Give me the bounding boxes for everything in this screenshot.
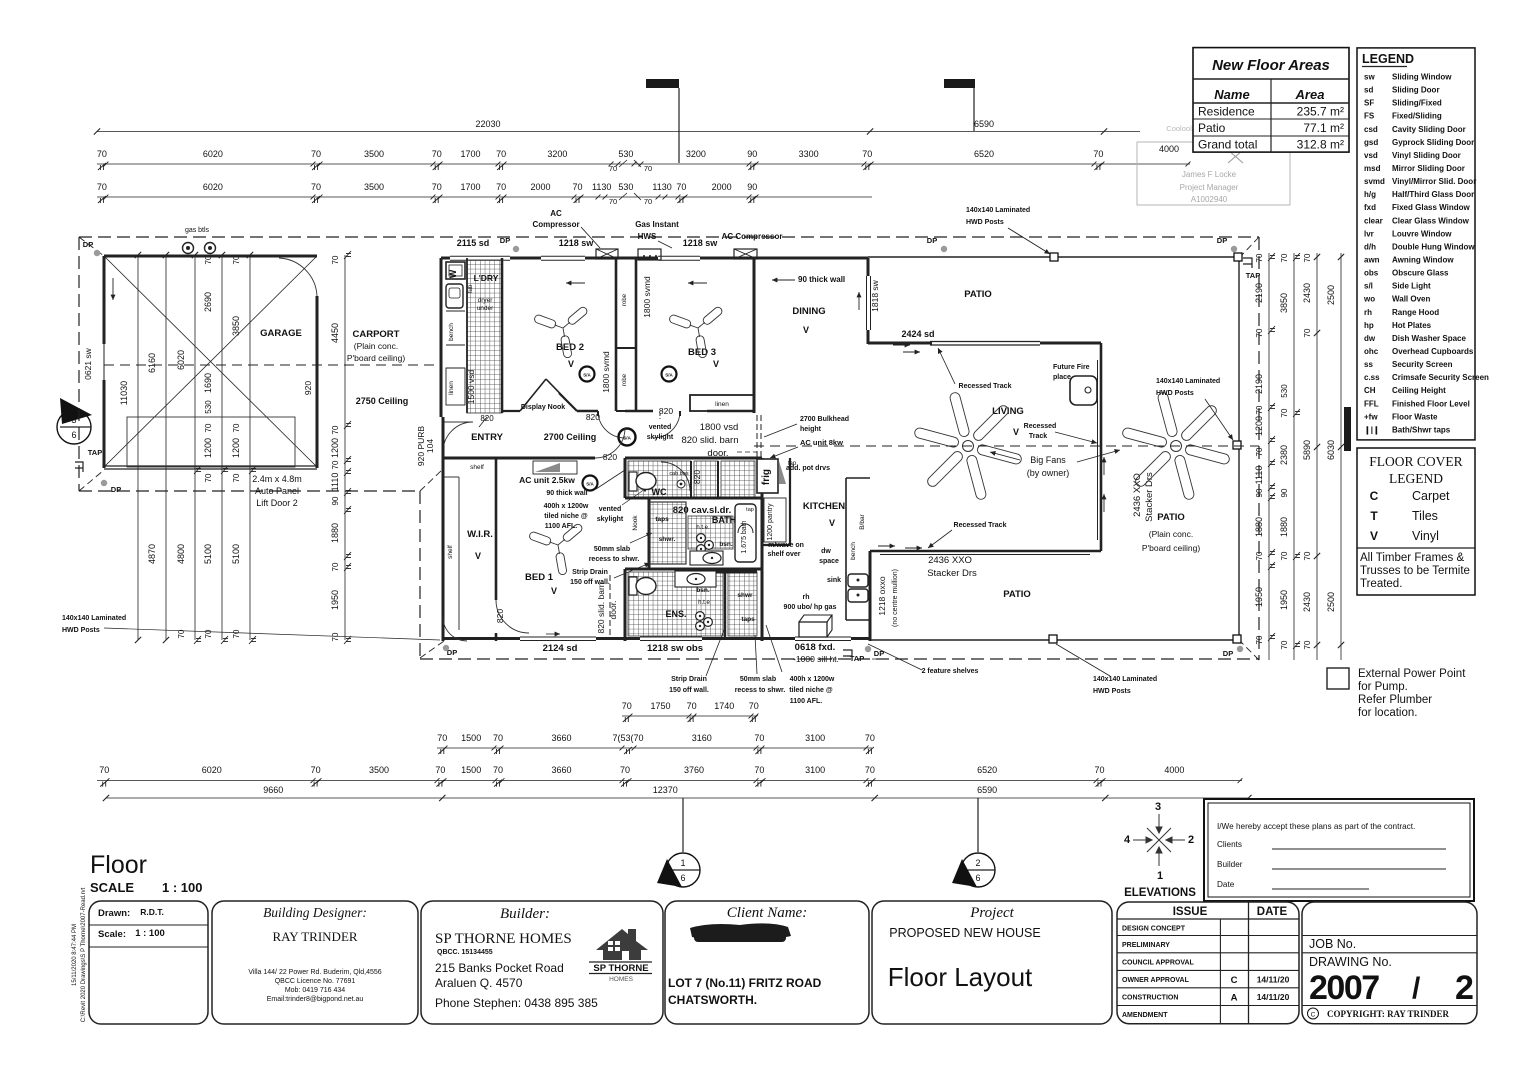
svg-text:Date: Date <box>1217 880 1235 889</box>
svg-text:(by owner): (by owner) <box>1027 468 1070 478</box>
svg-text:1218 sw: 1218 sw <box>683 238 719 248</box>
svg-text:50mm slab: 50mm slab <box>594 546 630 553</box>
svg-text:Carpet: Carpet <box>1412 489 1450 503</box>
svg-text:2007: 2007 <box>1309 969 1379 1007</box>
svg-text:6030: 6030 <box>1326 440 1336 460</box>
svg-text:3660: 3660 <box>551 733 571 743</box>
svg-text:3660: 3660 <box>551 765 571 775</box>
svg-text:150 off wall.: 150 off wall. <box>669 687 709 694</box>
svg-text:1200: 1200 <box>231 438 241 458</box>
corridor S/A <box>619 429 636 446</box>
svg-text:Hot Plates: Hot Plates <box>1392 321 1432 330</box>
svg-text:HWD Posts: HWD Posts <box>1093 688 1131 695</box>
svg-text:Vinyl: Vinyl <box>1412 529 1439 543</box>
washing machine W box <box>446 262 465 279</box>
WC hatch <box>628 461 691 498</box>
svg-text:LOT 7 (No.11) FRITZ ROAD: LOT 7 (No.11) FRITZ ROAD <box>668 976 822 990</box>
carport centre dashed line <box>104 364 441 366</box>
WIR right wall <box>495 458 498 600</box>
svg-text:Crimsafe Security Screen: Crimsafe Security Screen <box>1392 373 1489 382</box>
svg-text:4870: 4870 <box>147 544 157 564</box>
svg-text:Future Fire: Future Fire <box>1053 364 1090 371</box>
svg-text:OWNER APPROVAL: OWNER APPROVAL <box>1122 977 1190 984</box>
svg-text:sd: sd <box>1364 86 1373 95</box>
svg-text:1880: 1880 <box>330 523 340 543</box>
svg-text:Scale:: Scale: <box>98 929 126 940</box>
svg-text:70: 70 <box>493 765 503 775</box>
svg-text:70: 70 <box>609 164 617 173</box>
svg-text:Strip Drain: Strip Drain <box>572 569 608 576</box>
hip corner dashes <box>79 470 104 491</box>
svg-text:Email:trinder8@bigpond.net.au: Email:trinder8@bigpond.net.au <box>267 996 364 1003</box>
svg-text:dryer: dryer <box>478 297 494 304</box>
svg-text:70: 70 <box>311 765 321 775</box>
svg-text:90 thick wall: 90 thick wall <box>798 275 845 284</box>
svg-text:JOB No.: JOB No. <box>1309 937 1356 951</box>
project box <box>872 901 1112 1024</box>
svg-text:2700 Ceiling: 2700 Ceiling <box>544 432 597 442</box>
svg-text:70: 70 <box>865 765 875 775</box>
svg-text:530: 530 <box>618 182 633 192</box>
svg-text:lvr: lvr <box>1364 229 1374 238</box>
dimension row D (bath block) <box>622 715 757 717</box>
svg-text:Fixed Glass Window: Fixed Glass Window <box>1392 203 1470 212</box>
svg-text:6590: 6590 <box>977 785 997 795</box>
svg-text:Ceiling Height: Ceiling Height <box>1392 386 1446 395</box>
svg-text:1 : 100: 1 : 100 <box>135 928 165 939</box>
svg-text:taps: taps <box>741 616 755 623</box>
svg-text:12370: 12370 <box>653 785 678 795</box>
svg-text:C: C <box>1370 489 1379 503</box>
svg-text:shwr: shwr <box>737 592 753 599</box>
svg-text:Project Manager: Project Manager <box>1180 183 1239 192</box>
svg-text:dw: dw <box>821 548 831 555</box>
svg-text:QBCC. 15134455: QBCC. 15134455 <box>437 949 493 956</box>
svg-text:6020: 6020 <box>176 350 186 370</box>
svg-text:Builder: Builder <box>1217 860 1243 869</box>
svg-text:820: 820 <box>659 406 673 416</box>
svg-text:ENS.: ENS. <box>665 609 686 619</box>
svg-text:0621 sw: 0621 sw <box>83 347 93 380</box>
svg-text:tub: tub <box>468 284 474 293</box>
svg-text:140x140 Laminated: 140x140 Laminated <box>1093 676 1157 683</box>
svg-text:/: / <box>1412 972 1421 1005</box>
bulkhead dashed <box>756 415 758 457</box>
svg-text:70: 70 <box>1093 149 1103 159</box>
svg-text:1: 1 <box>1157 870 1163 882</box>
svg-text:1218 sw: 1218 sw <box>559 238 595 248</box>
svg-text:under: under <box>477 305 494 312</box>
svg-text:Clear Glass Window: Clear Glass Window <box>1392 216 1470 225</box>
svg-text:DP: DP <box>83 240 93 249</box>
svg-text:AC: AC <box>550 209 562 218</box>
svg-text:PATIO: PATIO <box>1157 512 1185 523</box>
svg-text:DP: DP <box>500 236 510 245</box>
svg-text:New Floor Areas: New Floor Areas <box>1212 57 1330 74</box>
centre dashed line <box>754 445 1259 447</box>
svg-text:1200 pantry: 1200 pantry <box>767 503 774 540</box>
svg-text:0618 fxd.: 0618 fxd. <box>795 642 836 653</box>
svg-text:820: 820 <box>480 414 494 423</box>
svg-text:2500: 2500 <box>1326 592 1336 612</box>
svg-text:6020: 6020 <box>203 182 223 192</box>
svg-text:shelf: shelf <box>470 464 484 471</box>
redaction blob <box>690 923 791 940</box>
svg-text:taps: taps <box>655 516 669 523</box>
svg-text:70: 70 <box>432 149 442 159</box>
svg-text:svmd: svmd <box>1364 177 1385 186</box>
bottom wall window thin segments <box>520 636 596 641</box>
svg-text:CONSTRUCTION: CONSTRUCTION <box>1122 994 1178 1001</box>
svg-text:70: 70 <box>232 423 241 432</box>
svg-text:1800 vsd: 1800 vsd <box>700 422 739 433</box>
svg-text:recess to shwr.: recess to shwr. <box>589 556 640 563</box>
svg-text:d/h: d/h <box>1364 242 1376 251</box>
svg-text:820: 820 <box>586 412 600 422</box>
svg-text:Building Designer:: Building Designer: <box>263 905 367 920</box>
svg-text:Overhead Cupboards: Overhead Cupboards <box>1392 347 1474 356</box>
svg-text:2124 sd: 2124 sd <box>543 643 578 654</box>
svg-text:900 ubo/ hp gas: 900 ubo/ hp gas <box>784 604 837 611</box>
svg-text:s/l: s/l <box>1364 282 1373 291</box>
svg-text:tiled niche @: tiled niche @ <box>789 687 833 694</box>
svg-text:3300: 3300 <box>799 149 819 159</box>
svg-text:Recessed: Recessed <box>1024 423 1057 430</box>
svg-text:1950: 1950 <box>1279 590 1289 610</box>
svg-text:90: 90 <box>747 149 757 159</box>
svg-text:70: 70 <box>1094 765 1104 775</box>
svg-text:70: 70 <box>754 733 764 743</box>
svg-text:hp: hp <box>1364 321 1374 330</box>
svg-text:1110: 1110 <box>330 473 340 492</box>
svg-text:Refer Plumber: Refer Plumber <box>1358 694 1432 706</box>
section flag 2 <box>944 79 975 88</box>
svg-text:70: 70 <box>1280 551 1289 560</box>
svg-text:DP: DP <box>1217 236 1227 245</box>
svg-text:1100 AFL.: 1100 AFL. <box>790 698 822 705</box>
svg-text:clear: clear <box>1364 216 1383 225</box>
svg-text:5100: 5100 <box>203 544 213 564</box>
svg-text:70: 70 <box>232 629 241 638</box>
svg-text:4000: 4000 <box>1159 144 1179 154</box>
svg-text:Floor: Floor <box>90 851 147 879</box>
svg-text:70: 70 <box>676 182 686 192</box>
svg-text:V: V <box>713 359 719 369</box>
svg-text:70: 70 <box>1303 640 1312 649</box>
top wall window thin segments <box>450 256 510 261</box>
svg-text:bsn.: bsn. <box>719 541 733 548</box>
svg-text:70: 70 <box>1280 408 1289 417</box>
svg-text:2430: 2430 <box>1302 283 1312 303</box>
svg-text:530: 530 <box>618 149 633 159</box>
svg-text:1218 oxxo: 1218 oxxo <box>877 576 887 615</box>
svg-text:2430: 2430 <box>1302 592 1312 612</box>
svg-text:70: 70 <box>331 255 340 264</box>
svg-text:2: 2 <box>1188 834 1194 846</box>
svg-text:1818 sw: 1818 sw <box>870 279 880 312</box>
carport vertical dim column <box>344 255 346 640</box>
svg-text:Villa 144/ 22 Power Rd. Buderi: Villa 144/ 22 Power Rd. Buderim, Qld,455… <box>248 969 381 976</box>
svg-text:Fixed/Sliding: Fixed/Sliding <box>1392 112 1442 121</box>
svg-text:SF: SF <box>1364 99 1374 108</box>
svg-text:ss: ss <box>1364 360 1373 369</box>
bed2 S/A <box>580 367 595 382</box>
right vertical dim columns <box>1268 253 1270 660</box>
wing left wall <box>442 417 445 641</box>
svg-text:Big Fans: Big Fans <box>1030 455 1066 465</box>
svg-text:3160: 3160 <box>692 733 712 743</box>
svg-text:vsd: vsd <box>1364 151 1378 160</box>
svg-text:70: 70 <box>865 733 875 743</box>
svg-text:RAY TRINDER: RAY TRINDER <box>272 929 357 944</box>
svg-text:PATIO: PATIO <box>1003 589 1031 600</box>
svg-text:400h x 1200w: 400h x 1200w <box>544 503 589 510</box>
svg-text:70: 70 <box>97 149 107 159</box>
dimension row A total 22030 / 6590 <box>97 131 1140 133</box>
svg-text:+fw: +fw <box>1364 412 1378 421</box>
svg-text:S/A: S/A <box>583 373 591 378</box>
svg-text:Strip Drain: Strip Drain <box>671 676 707 683</box>
svg-text:70: 70 <box>572 182 582 192</box>
svg-text:70: 70 <box>331 460 340 469</box>
svg-text:1800 svmd: 1800 svmd <box>601 351 611 393</box>
svg-text:HWD Posts: HWD Posts <box>62 627 100 634</box>
svg-text:5100: 5100 <box>231 544 241 564</box>
garage cross diagonals <box>105 257 316 466</box>
svg-text:Name: Name <box>1214 87 1249 102</box>
svg-text:1500: 1500 <box>461 733 481 743</box>
svg-text:1880: 1880 <box>1279 517 1289 537</box>
bath block outer walls <box>624 458 627 498</box>
svg-text:gsd: gsd <box>1364 138 1378 147</box>
svg-text:R.D.T.: R.D.T. <box>140 907 164 917</box>
svg-text:James F Locke: James F Locke <box>1182 170 1237 179</box>
svg-text:2380: 2380 <box>1279 445 1289 465</box>
SP Thorne logo <box>596 929 648 960</box>
svg-text:COPYRIGHT: RAY TRINDER: COPYRIGHT: RAY TRINDER <box>1327 1009 1450 1019</box>
svg-text:C: C <box>1311 1012 1316 1019</box>
svg-text:820 slid. barn: 820 slid. barn <box>596 582 606 633</box>
svg-text:bench: bench <box>850 542 857 560</box>
svg-text:robe: robe <box>622 293 628 306</box>
svg-text:c.ss: c.ss <box>1364 373 1380 382</box>
legend box <box>1357 48 1475 440</box>
svg-text:22030: 22030 <box>475 119 500 129</box>
new floor areas table <box>1193 48 1349 153</box>
svg-text:Mirror Sliding Door: Mirror Sliding Door <box>1392 164 1465 173</box>
svg-text:70: 70 <box>493 733 503 743</box>
svg-text:70: 70 <box>311 182 321 192</box>
svg-text:Louvre Window: Louvre Window <box>1392 229 1452 238</box>
svg-text:400h x 1200w: 400h x 1200w <box>790 676 835 683</box>
svg-text:BED 3: BED 3 <box>688 347 716 358</box>
svg-text:P'board ceiling): P'board ceiling) <box>347 353 405 363</box>
svg-text:tiled niche @: tiled niche @ <box>544 513 588 520</box>
svg-text:2000: 2000 <box>712 182 732 192</box>
svg-text:14/11/20: 14/11/20 <box>1257 992 1290 1002</box>
svg-text:shwr.: shwr. <box>659 536 676 543</box>
wall below WC <box>625 497 762 500</box>
svg-text:ELEVATIONS: ELEVATIONS <box>1124 887 1196 899</box>
svg-text:A1002940: A1002940 <box>1191 195 1228 204</box>
dimension row F <box>97 780 1242 782</box>
svg-text:PRELIMINARY: PRELIMINARY <box>1122 942 1170 949</box>
svg-text:External Power Point: External Power Point <box>1358 668 1466 680</box>
svg-text:70: 70 <box>609 197 617 206</box>
svg-text:Wall Oven: Wall Oven <box>1392 295 1430 304</box>
svg-text:V: V <box>1370 529 1378 543</box>
patio right boundary <box>1238 257 1240 640</box>
svg-text:2500: 2500 <box>1326 285 1336 305</box>
svg-text:PROPOSED NEW HOUSE: PROPOSED NEW HOUSE <box>889 926 1040 940</box>
svg-text:2436 XXO: 2436 XXO <box>1132 473 1143 517</box>
bath taps trio <box>697 534 706 543</box>
svg-text:820: 820 <box>495 609 505 623</box>
ENS fixtures <box>629 577 637 595</box>
svg-text:2115 sd: 2115 sd <box>457 238 490 248</box>
svg-text:2: 2 <box>975 858 980 868</box>
svg-text:6: 6 <box>975 873 980 883</box>
svg-text:bench: bench <box>448 323 455 341</box>
svg-text:Clients: Clients <box>1217 840 1242 849</box>
svg-text:vented: vented <box>649 424 672 431</box>
robe walls bed2/bed3 <box>615 258 618 348</box>
svg-text:h/g: h/g <box>1364 190 1376 199</box>
svg-text:820: 820 <box>692 470 702 484</box>
window swing arrows bed2 bed3 <box>566 282 585 284</box>
AC unit niche gray <box>533 461 577 474</box>
svg-text:DATE: DATE <box>1257 906 1288 918</box>
svg-text:fxd: fxd <box>1364 203 1376 212</box>
building designer box <box>212 901 418 1024</box>
svg-text:SCALE: SCALE <box>90 880 134 895</box>
svg-text:rh: rh <box>1364 308 1372 317</box>
svg-text:90: 90 <box>1280 488 1289 497</box>
svg-text:6020: 6020 <box>203 149 223 159</box>
svg-text:DRAWING No.: DRAWING No. <box>1309 955 1392 969</box>
bed2 fan <box>559 327 572 358</box>
svg-text:90: 90 <box>331 496 340 505</box>
section marker 2/6 <box>961 853 995 887</box>
svg-text:70: 70 <box>204 629 213 638</box>
svg-text:skylight: skylight <box>597 516 624 523</box>
svg-text:Recessed Track: Recessed Track <box>959 383 1012 390</box>
svg-text:TAP: TAP <box>88 448 102 457</box>
svg-text:1: 1 <box>680 858 685 868</box>
svg-text:530: 530 <box>1280 384 1289 398</box>
svg-text:2750 Ceiling: 2750 Ceiling <box>356 396 409 406</box>
svg-text:vented: vented <box>599 506 622 513</box>
svg-text:2424 sd: 2424 sd <box>901 329 934 339</box>
svg-text:1218 sw obs: 1218 sw obs <box>647 643 703 654</box>
svg-text:bsn.: bsn. <box>696 587 710 594</box>
svg-text:11030: 11030 <box>119 381 129 405</box>
svg-text:DESIGN CONCEPT: DESIGN CONCEPT <box>1122 926 1186 933</box>
svg-text:3760: 3760 <box>684 765 704 775</box>
svg-text:Vinyl Sliding Door: Vinyl Sliding Door <box>1392 151 1461 160</box>
WC fixtures <box>629 472 637 491</box>
svg-text:3100: 3100 <box>805 733 825 743</box>
svg-text:70: 70 <box>687 701 697 711</box>
svg-text:3: 3 <box>1155 801 1161 813</box>
section flag 1 <box>646 79 679 88</box>
svg-text:Residence: Residence <box>1198 105 1255 119</box>
svg-text:15/11/2020 8:47:44 PM: 15/11/2020 8:47:44 PM <box>72 924 78 986</box>
svg-text:1700: 1700 <box>460 182 480 192</box>
svg-text:70: 70 <box>435 765 445 775</box>
svg-text:1200: 1200 <box>330 438 340 458</box>
svg-text:DP: DP <box>111 485 121 494</box>
svg-text:3500: 3500 <box>364 182 384 192</box>
svg-text:70: 70 <box>620 765 630 775</box>
laundry right wall <box>501 258 504 413</box>
svg-text:140x140 Laminated: 140x140 Laminated <box>966 207 1030 214</box>
svg-text:Range Hood: Range Hood <box>1392 308 1439 317</box>
svg-text:❙|❙: ❙|❙ <box>1364 425 1380 435</box>
svg-text:msd: msd <box>1364 164 1381 173</box>
svg-text:P'board ceiling): P'board ceiling) <box>1142 543 1200 553</box>
svg-text:70: 70 <box>1303 328 1312 337</box>
builder box <box>421 901 663 1024</box>
garage panel lift door dashed rect <box>127 417 295 467</box>
svg-text:7(53(70: 7(53(70 <box>612 733 643 743</box>
svg-text:B/bar: B/bar <box>859 513 866 529</box>
svg-text:140x140 Laminated: 140x140 Laminated <box>62 615 126 622</box>
svg-text:70: 70 <box>204 473 213 482</box>
svg-text:Mob: 0419 716 434: Mob: 0419 716 434 <box>285 987 345 994</box>
BATH hatch + shower <box>650 502 686 564</box>
svg-text:1750: 1750 <box>650 701 670 711</box>
svg-text:3500: 3500 <box>369 765 389 775</box>
svg-text:Gyprock Sliding Door: Gyprock Sliding Door <box>1392 138 1474 147</box>
svg-text:235.7 m²: 235.7 m² <box>1297 105 1344 119</box>
svg-text:6020: 6020 <box>202 765 222 775</box>
svg-text:place: place <box>1053 374 1071 381</box>
bed3 right wall <box>753 258 756 413</box>
svg-text:70: 70 <box>749 701 759 711</box>
approval stamp (faint) <box>1137 142 1290 205</box>
stacker arrows <box>1103 457 1105 475</box>
svg-text:DP: DP <box>1223 649 1233 658</box>
svg-text:70: 70 <box>331 425 340 434</box>
svg-text:6520: 6520 <box>977 765 997 775</box>
svg-text:DP: DP <box>927 236 937 245</box>
svg-text:S/A: S/A <box>665 373 673 378</box>
garage down arrow <box>112 278 114 300</box>
svg-text:frig: frig <box>761 469 772 485</box>
svg-text:1 : 100: 1 : 100 <box>162 880 202 895</box>
ENS hatch <box>628 572 723 636</box>
svg-text:3850: 3850 <box>1279 293 1289 313</box>
svg-text:215 Banks Pocket Road: 215 Banks Pocket Road <box>435 961 564 975</box>
svg-text:Sliding Door: Sliding Door <box>1392 86 1440 95</box>
svg-text:LEGEND: LEGEND <box>1389 471 1443 486</box>
big fans <box>963 441 974 452</box>
svg-text:312.8 m²: 312.8 m² <box>1297 138 1344 152</box>
svg-text:awn: awn <box>1364 255 1380 264</box>
kitchen bench <box>845 478 847 620</box>
dimension row C <box>97 196 872 198</box>
svg-text:Vinyl/Mirror Slid. Door: Vinyl/Mirror Slid. Door <box>1392 177 1476 186</box>
svg-text:AC Compressor: AC Compressor <box>722 232 783 241</box>
client box <box>665 901 869 1024</box>
svg-text:space: space <box>819 558 839 565</box>
svg-text:Nook: Nook <box>632 515 639 531</box>
svg-text:for location.: for location. <box>1358 707 1417 719</box>
svg-text:6520: 6520 <box>974 149 994 159</box>
svg-text:2.4m x 4.8m: 2.4m x 4.8m <box>252 474 302 484</box>
svg-text:Double Hung Window: Double Hung Window <box>1392 242 1475 251</box>
